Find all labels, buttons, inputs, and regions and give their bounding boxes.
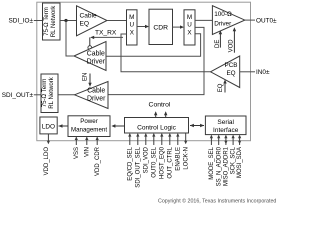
svg-text:LDO: LDO xyxy=(42,124,55,131)
svg-text:75-Ω Term: 75-Ω Term xyxy=(43,7,50,36)
svg-text:Power: Power xyxy=(80,118,98,125)
svg-text:EQ: EQ xyxy=(218,83,224,92)
svg-text:Driver: Driver xyxy=(87,95,106,102)
svg-text:Serial: Serial xyxy=(217,119,234,126)
svg-text:MODE_SEL: MODE_SEL xyxy=(209,146,215,179)
svg-text:HOST_EQ0: HOST_EQ0 xyxy=(159,146,165,179)
svg-text:RL Network: RL Network xyxy=(50,5,57,38)
svg-text:SDI_OUT±: SDI_OUT± xyxy=(2,92,34,99)
svg-text:ENABLE: ENABLE xyxy=(175,147,181,171)
svg-text:M: M xyxy=(187,14,192,21)
svg-text:Control Logic: Control Logic xyxy=(137,125,177,132)
svg-text:SDI_IO±: SDI_IO± xyxy=(9,18,34,25)
svg-text:SS_N_ADDR0: SS_N_ADDR0 xyxy=(216,146,222,186)
svg-text:CDR: CDR xyxy=(153,24,168,31)
svg-text:Control: Control xyxy=(149,102,171,109)
svg-text:MISO_ADDR1: MISO_ADDR1 xyxy=(223,146,229,186)
svg-text:EQ: EQ xyxy=(80,21,90,28)
svg-text:VDD_LDO: VDD_LDO xyxy=(44,147,50,176)
svg-text:VIN: VIN xyxy=(84,147,90,157)
svg-text:TX_RX: TX_RX xyxy=(95,29,117,36)
svg-text:SDI_VOD: SDI_VOD xyxy=(143,146,149,173)
svg-text:Management: Management xyxy=(71,126,107,133)
svg-text:Interface: Interface xyxy=(213,127,239,134)
svg-text:SCK_SCL: SCK_SCL xyxy=(231,146,237,174)
svg-text:Cable: Cable xyxy=(87,88,105,95)
svg-text:EQ: EQ xyxy=(226,70,235,77)
svg-text:Driver: Driver xyxy=(214,21,232,28)
svg-text:100-Ω: 100-Ω xyxy=(214,11,232,18)
svg-text:PCB: PCB xyxy=(225,62,238,69)
svg-text:Cable: Cable xyxy=(87,50,105,57)
svg-text:LOCK-N: LOCK-N xyxy=(183,147,189,170)
svg-text:VOD: VOD xyxy=(229,39,235,53)
svg-text:RL Network: RL Network xyxy=(48,76,55,109)
svg-text:Copyright © 2016, Texas Instru: Copyright © 2016, Texas Instruments Inco… xyxy=(158,197,276,204)
svg-text:75-Ω Term: 75-Ω Term xyxy=(41,79,48,108)
svg-text:SDI_OUT_SEL: SDI_OUT_SEL xyxy=(135,146,141,187)
svg-text:U: U xyxy=(130,22,135,29)
svg-text:OUT0±: OUT0± xyxy=(256,17,277,24)
svg-text:U: U xyxy=(187,22,192,29)
svg-text:IN0±: IN0± xyxy=(256,69,270,76)
svg-text:MOSI_SDA: MOSI_SDA xyxy=(237,147,243,178)
svg-text:Cable: Cable xyxy=(80,13,98,20)
svg-text:M: M xyxy=(129,14,134,21)
svg-text:VDD_CDR: VDD_CDR xyxy=(95,146,101,176)
svg-text:EQ/CD_SEL: EQ/CD_SEL xyxy=(127,146,133,180)
svg-text:EN: EN xyxy=(82,73,88,81)
svg-text:Driver: Driver xyxy=(87,59,106,66)
svg-text:OUT0_SEL: OUT0_SEL xyxy=(151,146,157,177)
svg-text:DE: DE xyxy=(215,40,221,48)
svg-text:VSS: VSS xyxy=(74,147,80,159)
svg-text:OUT_CTRL: OUT_CTRL xyxy=(167,146,173,178)
